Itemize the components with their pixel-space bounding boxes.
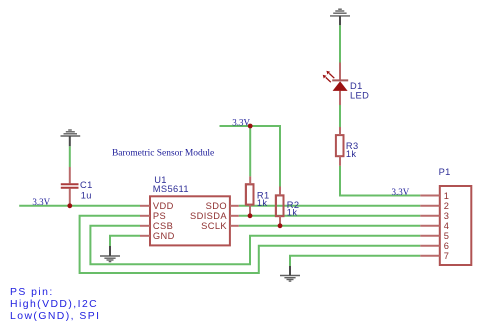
svg-text:2: 2 — [444, 201, 450, 211]
svg-text:4: 4 — [444, 221, 450, 231]
svg-text:3.3V: 3.3V — [232, 117, 250, 127]
svg-text:6: 6 — [444, 241, 450, 251]
svg-text:1: 1 — [444, 191, 450, 201]
svg-text:PS pin:: PS pin: — [10, 287, 54, 298]
svg-text:High(VDD),I2C: High(VDD),I2C — [10, 299, 98, 310]
svg-text:LED: LED — [350, 90, 369, 100]
svg-text:3: 3 — [444, 211, 450, 221]
svg-text:3.3V: 3.3V — [32, 197, 50, 207]
svg-text:3.3V: 3.3V — [392, 187, 410, 197]
svg-text:1k: 1k — [346, 149, 357, 159]
svg-text:GND: GND — [153, 231, 175, 241]
svg-text:PS: PS — [153, 211, 166, 221]
svg-text:SDISDA: SDISDA — [190, 211, 227, 221]
svg-text:P1: P1 — [439, 167, 451, 177]
svg-text:C1: C1 — [80, 180, 93, 190]
svg-text:7: 7 — [444, 251, 450, 261]
svg-text:5: 5 — [444, 231, 450, 241]
svg-text:Low(GND), SPI: Low(GND), SPI — [10, 311, 100, 322]
svg-text:Barometric Sensor Module: Barometric Sensor Module — [112, 149, 214, 159]
svg-text:MS5611: MS5611 — [153, 184, 189, 194]
svg-text:VDD: VDD — [153, 201, 174, 211]
svg-text:SDO: SDO — [206, 201, 227, 211]
svg-text:SCLK: SCLK — [201, 221, 227, 231]
svg-text:1u: 1u — [81, 191, 92, 201]
svg-text:CSB: CSB — [153, 221, 173, 231]
svg-text:1k: 1k — [257, 198, 268, 208]
svg-text:1k: 1k — [287, 208, 298, 218]
